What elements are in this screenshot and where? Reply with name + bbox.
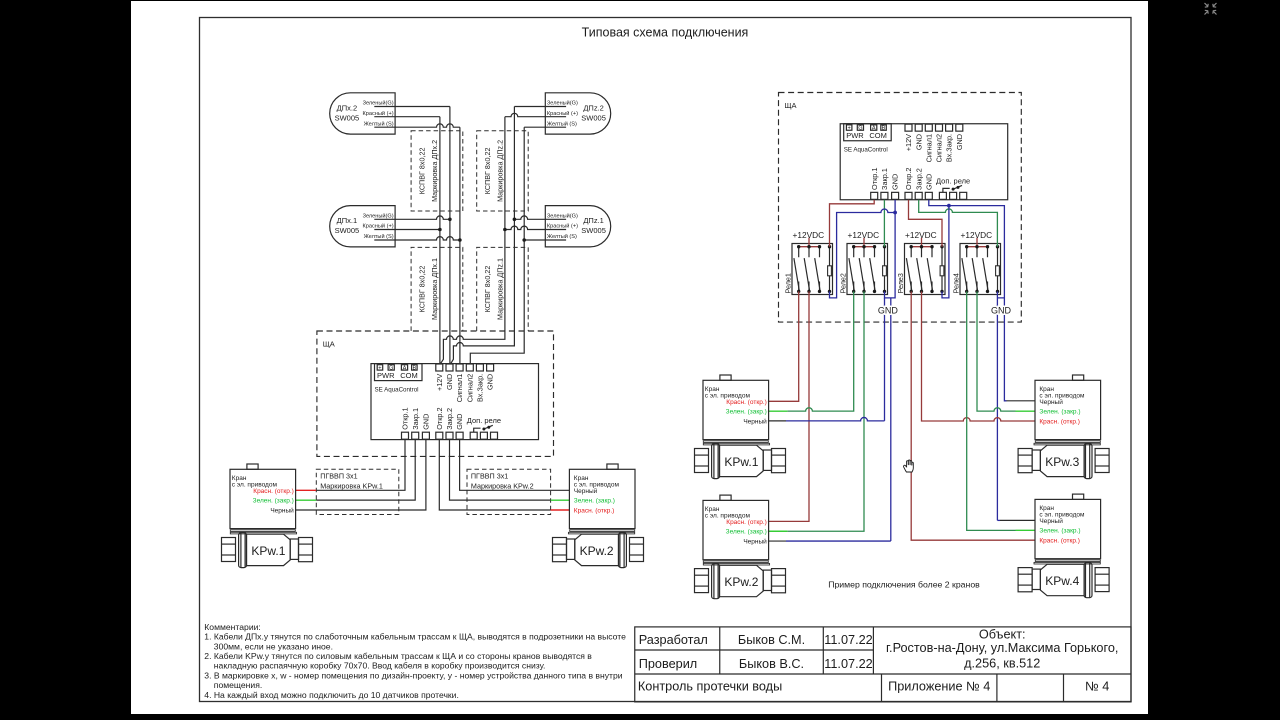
wire ДПz.2 red [505, 113, 566, 116]
wire KPw.1 green to Закр.1 [296, 499, 317, 501]
wire bus z yellow to Сигнал2 [470, 127, 524, 363]
cable box Маркировка ДПz.2 [477, 131, 529, 211]
wire ДПх.2 yellow [374, 124, 460, 127]
svg-text:KPw.1: KPw.1 [251, 544, 285, 558]
svg-text:Красн. (откр.): Красн. (откр.) [253, 488, 294, 495]
wire KPw.2 black to GND [768, 540, 786, 542]
svg-text:Красный (+): Красный (+) [547, 110, 578, 117]
svg-text:KPw.1: KPw.1 [724, 455, 758, 469]
svg-text:SW005: SW005 [335, 113, 360, 122]
svg-text:Зеленый(G): Зеленый(G) [547, 212, 578, 219]
expand icon top-right [1205, 3, 1217, 15]
drawing frame [200, 18, 1132, 702]
svg-text:ЩА: ЩА [323, 339, 335, 348]
svg-text:11.07.22: 11.07.22 [824, 633, 872, 647]
svg-text:KPw.4: KPw.4 [1045, 574, 1079, 588]
wire bus x yellow [459, 127, 461, 363]
svg-text:Маркировка ДПх.1: Маркировка ДПх.1 [430, 258, 439, 320]
valve KPw.2 (right) [695, 495, 786, 599]
sensor ДПх.1 SW005 [330, 206, 395, 247]
enclosure ЩА (right) [779, 93, 1022, 323]
svg-text:помещения.: помещения. [214, 680, 262, 690]
svg-text:Проверил: Проверил [639, 657, 697, 671]
wire Реле4 coil return [997, 291, 1004, 520]
valve KPw.4 (right) [1018, 494, 1109, 598]
svg-text:накладную распаячную коробку 7: накладную распаячную коробку 70х70. Ввод… [214, 661, 546, 671]
cable box Маркировка ДПz.1 [477, 247, 529, 331]
svg-text:GND: GND [878, 306, 899, 316]
relay Реле1 [792, 238, 833, 295]
svg-text:КСПВГ 8х0,22: КСПВГ 8х0,22 [417, 266, 426, 313]
svg-text:Быков С.М.: Быков С.М. [738, 633, 805, 647]
cable box ПГВВП 3х1 Маркировка KPw.1 [316, 469, 399, 514]
wire GND drop to KPw.1 [884, 298, 886, 421]
svg-text:Красный (+): Красный (+) [363, 223, 394, 230]
svg-text:КСПВГ 8х0,22: КСПВГ 8х0,22 [417, 148, 426, 195]
svg-text:KPw.2: KPw.2 [580, 544, 614, 558]
valve stub KPw.2 green [768, 530, 788, 532]
relay Реле3 [905, 238, 946, 295]
wire Реле4 contact to KPw.3 green [977, 291, 1016, 411]
svg-text:Реле1: Реле1 [783, 273, 792, 293]
valve KPw.1 (left) [222, 464, 313, 568]
svg-text:ПГВВП 3х1: ПГВВП 3х1 [471, 472, 508, 481]
svg-text:Маркировка KPw.2: Маркировка KPw.2 [471, 482, 534, 491]
svg-text:Красн. (откр.): Красн. (откр.) [1039, 419, 1080, 426]
cable box ПГВВП 3х1 Маркировка KPw.2 [467, 469, 551, 514]
svg-text:Быков В.С.: Быков В.С. [739, 657, 804, 671]
svg-text:Разработал: Разработал [639, 633, 708, 647]
svg-text:Пример подключения более 2 кра: Пример подключения более 2 кранов [828, 580, 980, 590]
svg-text:Типовая схема подключения: Типовая схема подключения [582, 26, 749, 40]
svg-text:1. Кабели ДПх.у тянутся по сла: 1. Кабели ДПх.у тянутся по слаботочным к… [204, 632, 626, 642]
svg-text:SW005: SW005 [581, 113, 606, 122]
svg-text:ДПх.1: ДПх.1 [337, 216, 357, 225]
svg-text:Красный (+): Красный (+) [547, 223, 578, 230]
svg-text:3. В маркировке x, w - номер п: 3. В маркировке x, w - номер помещения п… [204, 670, 622, 680]
wire Закр.1 to Реле2 coil [883, 200, 885, 247]
wire ДПz.2 yellow [524, 126, 566, 128]
svg-text:ДПz.2: ДПz.2 [583, 103, 603, 112]
wire KPw.1 black to GND [768, 420, 786, 422]
svg-text:Желтый (S): Желтый (S) [364, 120, 394, 127]
svg-text:Зелен. (закр.): Зелен. (закр.) [574, 498, 615, 505]
svg-text:Объект:: Объект: [979, 627, 1026, 641]
wire Реле4 contact to KPw.4 green [967, 291, 1016, 530]
valve stub KPw.4 green [1016, 529, 1036, 531]
svg-text:д.256, кв.512: д.256, кв.512 [964, 657, 1040, 671]
svg-text:Зеленый(G): Зеленый(G) [547, 100, 578, 107]
svg-text:ДПх.2: ДПх.2 [337, 103, 357, 112]
enclosure ЩА (left) [317, 331, 554, 456]
svg-text:Красн. (откр.): Красн. (откр.) [726, 399, 767, 406]
svg-text:Черный: Черный [574, 487, 598, 495]
node ДПz.1 green junction [513, 218, 517, 222]
svg-text:Зеленый(G): Зеленый(G) [363, 212, 394, 219]
wire ДПz.1 red [505, 226, 566, 229]
svg-text:SW005: SW005 [581, 226, 606, 235]
svg-text:Маркировка ДПz.2: Маркировка ДПz.2 [496, 140, 505, 202]
wire bus x red [439, 117, 441, 364]
svg-text:Черный: Черный [743, 538, 767, 546]
wire Реле2 contact to KPw.2 green [787, 291, 864, 531]
svg-text:Желтый (S): Желтый (S) [547, 233, 577, 240]
svg-text:SW005: SW005 [335, 226, 360, 235]
node ДПх.1 red junction [438, 228, 442, 232]
wire Реле2 contact to KPw.1 green [787, 291, 853, 411]
wire ДПх.2 red [374, 116, 440, 118]
svg-text:Зелен. (закр.): Зелен. (закр.) [726, 529, 767, 536]
svg-text:Зеленый(G): Зеленый(G) [363, 100, 394, 107]
wire GND1 down [885, 200, 896, 298]
wire ДПz.2 green [514, 106, 566, 108]
wire ДПz.1 green [514, 216, 566, 219]
valve KPw.3 (right) [1018, 375, 1109, 479]
cable box Маркировка ДПх.1 [411, 247, 463, 331]
relay Реле2 [847, 238, 888, 295]
relay Реле4 [960, 238, 1001, 295]
wire bus z green to GND [451, 107, 515, 364]
wire ДПх.1 yellow [374, 237, 460, 240]
svg-text:Черный: Черный [270, 507, 294, 515]
svg-text:Реле4: Реле4 [951, 273, 960, 293]
svg-text:ЩА: ЩА [785, 101, 797, 110]
svg-text:Реле3: Реле3 [896, 273, 905, 293]
valve KPw.2 (left) [553, 464, 644, 568]
controller U2 SE AquaControl (right) [840, 124, 1008, 200]
wire bus z red to +12V [441, 117, 505, 364]
sensor ДПz.2 SW005 [545, 93, 610, 134]
svg-text:KPw.3: KPw.3 [1045, 455, 1079, 469]
svg-text:Маркировка KPw.1: Маркировка KPw.1 [320, 482, 383, 491]
svg-text:Черный: Черный [743, 418, 767, 426]
node GND2 junction [947, 204, 951, 208]
wire Откр.1 to Реле1 coil [830, 200, 875, 247]
wire KPw.1 black to GND [296, 440, 426, 510]
svg-text:г.Ростов-на-Дону, ул.Максима Г: г.Ростов-на-Дону, ул.Максима Горького, [886, 641, 1118, 655]
wire GND2 right [929, 200, 1007, 401]
node ДПх.1 yellow junction [458, 238, 462, 242]
wire GND drop to KPw.2 [890, 298, 892, 541]
svg-text:+12VDC: +12VDC [905, 230, 937, 240]
wire KPw.1 red to Откр.1 [296, 489, 317, 491]
svg-text:KPw.2: KPw.2 [724, 575, 758, 589]
node ДПх.1 green junction [448, 218, 452, 222]
svg-text:+12VDC: +12VDC [848, 230, 880, 240]
svg-text:ПГВВП 3х1: ПГВВП 3х1 [320, 472, 357, 481]
wire Реле1 coil return [830, 209, 896, 298]
svg-text:Черный: Черный [1039, 517, 1063, 525]
svg-text:Контроль протечки воды: Контроль протечки воды [638, 679, 782, 693]
svg-text:КСПВГ 8х0,22: КСПВГ 8х0,22 [483, 266, 492, 313]
valve stub KPw.1 green [768, 410, 788, 412]
svg-text:Маркировка ДПх.2: Маркировка ДПх.2 [430, 140, 439, 202]
wire ДПх.1 red [374, 229, 440, 231]
wire Закр.2 to Реле4 coil [919, 200, 998, 247]
svg-text:300мм, если не указано иное.: 300мм, если не указано иное. [214, 641, 333, 651]
svg-text:Маркировка ДПz.1: Маркировка ДПz.1 [496, 258, 505, 320]
svg-text:2. Кабели KPw.у тянутся по сил: 2. Кабели KPw.у тянутся по силовым кабел… [204, 651, 592, 661]
sensor ДПz.1 SW005 [545, 206, 610, 247]
svg-text:Комментарии:: Комментарии: [204, 622, 261, 632]
wire Реле1 contact to KPw.2 red [768, 291, 809, 521]
wire bus x green [449, 107, 451, 364]
wire Реле3 contact to KPw.3 red [922, 291, 1036, 421]
cable box Маркировка ДПх.2 [411, 131, 463, 211]
wire KPw.2 red to Откр.2 [551, 509, 570, 511]
svg-text:Желтый (S): Желтый (S) [547, 120, 577, 127]
valve stub KPw.3 green [1016, 410, 1036, 412]
mouse cursor (hand) [904, 460, 914, 472]
svg-text:Черный: Черный [1039, 398, 1063, 406]
wire Реле3 coil return [942, 206, 949, 298]
controller U1 SE AquaControl (left) [371, 364, 539, 440]
svg-text:+12VDC: +12VDC [961, 230, 993, 240]
svg-text:4. На каждый вход можно подклю: 4. На каждый вход можно подключить до 10… [204, 690, 459, 700]
node GND1 junction [893, 211, 897, 215]
svg-text:Приложение № 4: Приложение № 4 [888, 680, 990, 694]
sensor ДПх.2 SW005 [330, 93, 395, 134]
wire KPw.4 black to GND [1000, 519, 1035, 521]
svg-text:Красн. (откр.): Красн. (откр.) [574, 508, 615, 515]
svg-text:Красн. (откр.): Красн. (откр.) [1039, 538, 1080, 545]
svg-text:11.07.22: 11.07.22 [824, 657, 872, 671]
wire Откр.2 to Реле3 coil [909, 200, 943, 247]
valve KPw.1 (right) [695, 375, 786, 479]
svg-text:GND: GND [991, 306, 1012, 316]
svg-text:Красный (+): Красный (+) [363, 110, 394, 117]
node ДПz.1 yellow junction [522, 238, 526, 242]
svg-text:+12VDC: +12VDC [793, 230, 825, 240]
svg-text:Зелен. (закр.): Зелен. (закр.) [726, 409, 767, 416]
wire KPw.2 black to GND [460, 440, 570, 491]
svg-text:ДПz.1: ДПz.1 [583, 216, 603, 225]
wire Реле1 contact to KPw.1 red [768, 291, 799, 401]
wire KPw.3 black to GND [1007, 400, 1036, 402]
node ДПz.1 red junction [503, 228, 507, 232]
svg-text:Зелен. (закр.): Зелен. (закр.) [253, 498, 294, 505]
svg-text:№ 4: № 4 [1085, 680, 1109, 694]
wire Реле3 contact to KPw.4 red [911, 291, 1035, 540]
wire ДПх.1 green [374, 216, 450, 219]
wire KPw.2 green to Закр.2 [551, 499, 570, 501]
svg-text:Реле2: Реле2 [838, 273, 847, 293]
wire ДПz.1 yellow [524, 239, 566, 241]
white page [131, 1, 1148, 714]
svg-text:Зелен. (закр.): Зелен. (закр.) [1039, 409, 1080, 416]
svg-text:Зелен. (закр.): Зелен. (закр.) [1039, 528, 1080, 535]
svg-text:Желтый (S): Желтый (S) [364, 233, 394, 240]
svg-text:КСПВГ 8х0,22: КСПВГ 8х0,22 [483, 148, 492, 195]
svg-text:Красн. (откр.): Красн. (откр.) [726, 519, 767, 526]
wire ДПх.2 green [374, 106, 450, 108]
